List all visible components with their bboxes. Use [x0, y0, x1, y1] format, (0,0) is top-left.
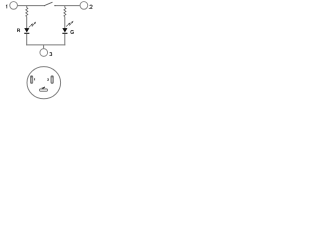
connector ground key mark — [42, 87, 45, 89]
wire terminal1 to switch — [18, 5, 45, 7]
wire left junction down — [26, 6, 28, 8]
terminal 1 — [10, 2, 18, 10]
wire switch to terminal 2 — [56, 5, 81, 7]
connector ground key notch — [42, 87, 43, 89]
switch S1 contact left — [44, 5, 45, 6]
resistor G (right) — [64, 8, 66, 17]
LED R cathode bar — [24, 32, 29, 34]
LED R label "R" — [17, 29, 20, 32]
terminal 2 — [80, 2, 88, 10]
LED G triangle — [62, 28, 67, 32]
connector pin 1 label — [33, 79, 36, 81]
terminal 3 label "3" — [50, 53, 52, 56]
connector pin 2 label — [47, 79, 48, 81]
connector pin slot 1 — [30, 76, 32, 84]
LED R arrow 1 — [29, 24, 33, 28]
wire stub to terminal 3 — [43, 45, 45, 49]
LED G cathode bar — [62, 32, 67, 34]
LED G arrow 2 — [69, 21, 73, 25]
wire LED R to bottom rail — [26, 34, 28, 46]
switch S1 contact right — [54, 5, 55, 6]
LED R arrow 2 — [32, 22, 36, 26]
wire right junction down — [64, 6, 66, 8]
bottom rail wire — [26, 44, 65, 46]
terminal 2 label "2" — [90, 5, 93, 8]
connector ground slot — [40, 89, 48, 91]
connector body (face view) — [27, 67, 61, 99]
terminal 3 — [40, 49, 48, 57]
resistor R (left) — [26, 8, 28, 17]
LED R triangle — [24, 28, 29, 32]
connector pin slot 2 — [51, 76, 54, 84]
wire LED G to bottom rail — [64, 34, 66, 46]
wire resistor to LED R — [26, 17, 28, 29]
switch S1 blade — [45, 2, 52, 5]
terminal 1 label "1" — [5, 5, 8, 8]
wire resistor to LED G — [64, 17, 66, 29]
LED G label "G" — [71, 30, 74, 33]
LED G arrow 1 — [66, 23, 70, 27]
